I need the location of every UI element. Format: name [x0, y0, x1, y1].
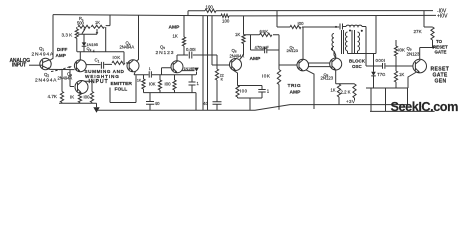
- svg-text:I0K: I0K: [149, 81, 156, 86]
- diode T7G: [371, 54, 376, 89]
- svg-text:Q1: Q1: [39, 46, 44, 52]
- resistor 100 with capacitor 1 (Q6 emitter network): [233, 70, 266, 111]
- resistor 10K (Q9 input, x=396): [394, 40, 397, 66]
- capacitor C1: [86, 62, 112, 69]
- wire Q6 base feed: [212, 64, 230, 66]
- wire dropper to 4.7K x=62: [61, 70, 63, 92]
- resistor 10K (Q7 base bias, x=279): [277, 65, 280, 110]
- wire riser to Q5 base: [162, 68, 172, 75]
- svg-text:+3V: +3V: [346, 99, 355, 104]
- svg-text:AMP: AMP: [290, 89, 302, 95]
- transistor Q5: [171, 61, 183, 73]
- transistor Q4: [127, 60, 139, 72]
- svg-text:1K: 1K: [235, 32, 240, 37]
- svg-text:FOLL: FOLL: [115, 86, 128, 92]
- svg-text:500: 500: [77, 21, 85, 26]
- capacitor (interstage, on y=74.7): [149, 71, 151, 77]
- svg-text:1: 1: [149, 67, 151, 71]
- wire -10V drop x=277 to oscillator feed: [276, 11, 278, 27]
- node dot (transformer primary): [331, 48, 333, 50]
- svg-text:4.7K: 4.7K: [48, 94, 58, 99]
- resistor 100 (emitter foll, x=174.5): [173, 75, 176, 93]
- svg-text:I00: I00: [298, 21, 305, 26]
- svg-text:AMP: AMP: [56, 53, 66, 58]
- wire pot right end down x=105.7: [106, 15, 110, 52]
- svg-text:C1: C1: [95, 58, 100, 64]
- wire ground rail main: [97, 105, 408, 111]
- wire Q7 emitter dropper: [306, 70, 314, 109]
- resistor 3.3K vertical x=76.8: [75, 27, 78, 52]
- wire emitter-foll box: [110, 75, 136, 102]
- transistor Q8: [330, 58, 342, 70]
- resistor 100 (Q3 collector, x=92): [90, 92, 93, 104]
- ground symbol: [93, 103, 99, 113]
- node dot on osc wire: [335, 26, 337, 28]
- wire Q3 collector to 100: [85, 81, 93, 91]
- wire corner down x=124 to 10K: [123, 52, 125, 63]
- core lines pair 2: [352, 30, 355, 54]
- svg-text:2N494A: 2N494A: [35, 77, 57, 83]
- resistor 1K (Q3 emitter, x=80): [78, 93, 81, 103]
- svg-text:68K: 68K: [260, 29, 269, 34]
- wire left supply drop x=53 to Q1 collector: [50, 15, 54, 61]
- winding bottoms wiring: [334, 51, 376, 58]
- svg-text:1K: 1K: [137, 79, 142, 83]
- svg-text:1: 1: [267, 89, 270, 94]
- wire dropper x=196 to ground rail: [195, 93, 197, 111]
- wire Q4 collector riser x=138.5: [136, 15, 139, 61]
- capacitor 1 (emitter foll, x=192): [189, 75, 196, 93]
- capacitor 0.001 (no.2): [383, 63, 385, 69]
- wire output node y=55: [177, 54, 217, 56]
- transistor Q2: [74, 60, 86, 72]
- wire node bus y=51.8: [77, 51, 124, 53]
- polarity dot top middle: [349, 29, 351, 31]
- svg-text:BLOCK: BLOCK: [349, 58, 366, 63]
- svg-text:100: 100: [206, 5, 214, 10]
- core lines pair 1: [342, 30, 344, 54]
- capacitor 40 (no.1, x=150): [146, 93, 154, 111]
- wiper arrow R1: [82, 29, 85, 34]
- wire 10K to Q4 base: [126, 62, 129, 64]
- svg-text:100: 100: [222, 19, 230, 24]
- resistor 1K (Q9 base, x=396): [394, 66, 397, 88]
- wire mid verticals x=203,207.5,212: [203, 16, 212, 111]
- resistor 1K (amp collector load, x=184): [182, 16, 185, 56]
- polarity dot top right: [361, 30, 363, 32]
- wire Q2 collector riser: [79, 52, 81, 60]
- wire pot wiper bus y=34.3: [78, 33, 97, 35]
- potentiometer R1 500 / 1K body: [78, 25, 104, 28]
- svg-text:OSC: OSC: [352, 64, 363, 69]
- resistor 4.7K (x=62): [60, 92, 63, 104]
- svg-text:0.00I: 0.00I: [186, 47, 196, 52]
- diode 1N198 (at Q5 emitter): [182, 68, 199, 75]
- svg-text:I00: I00: [165, 81, 172, 86]
- svg-text:AMP: AMP: [169, 24, 181, 30]
- winding 4 horizontal (top): [343, 25, 367, 66]
- svg-text:T7G: T7G: [377, 72, 385, 77]
- wire arrow to reset gate: [428, 47, 433, 49]
- svg-text:40: 40: [155, 101, 161, 106]
- wire dropper to Q3 base x=70: [70, 70, 74, 87]
- svg-text:3.3 K: 3.3 K: [62, 33, 74, 38]
- winding 3: [358, 32, 360, 51]
- wire dashed thermal-coupling arrow Q1 to Q2: [51, 67, 70, 72]
- resistor (osc feed, on y=27 wire): [277, 25, 339, 28]
- svg-text:I0K: I0K: [113, 55, 121, 60]
- svg-text:2N123: 2N123: [407, 51, 420, 56]
- svg-text:Q2: Q2: [44, 72, 49, 78]
- svg-text:1N19B: 1N19B: [184, 67, 196, 71]
- wire -10V rail (top rail): [188, 10, 433, 12]
- wire Q9 collector node: [420, 48, 433, 60]
- svg-text:IK: IK: [70, 95, 74, 100]
- svg-text:EMITTER: EMITTER: [111, 81, 133, 87]
- resistor 2.2K (to +3V, x=354.5): [353, 84, 356, 100]
- transistor Q1: [40, 58, 51, 69]
- resistor 27K: [424, 11, 434, 48]
- wire Q9 emitter dropper: [408, 72, 417, 88]
- svg-text:Q5: Q5: [160, 44, 165, 50]
- svg-text:GATE: GATE: [435, 50, 447, 55]
- transformer T1 blocking-osc: [332, 29, 376, 58]
- wire ground rail left segment: [59, 102, 97, 104]
- svg-text:DIFF: DIFF: [57, 47, 68, 52]
- svg-text:I00: I00: [240, 89, 248, 94]
- wire Q8 emitter and bias bus: [336, 70, 355, 84]
- winding 2: [345, 32, 347, 51]
- resistor 1K (Q6 collector, x=243.5): [240, 16, 245, 60]
- svg-text:2N494A: 2N494A: [120, 45, 135, 50]
- wire output bus y=66 to Q9 base: [366, 65, 413, 67]
- wire +10V drop x=376: [375, 16, 377, 54]
- svg-text:GEN: GEN: [435, 78, 447, 84]
- svg-text:I0K: I0K: [262, 74, 271, 79]
- svg-text:1K: 1K: [331, 87, 336, 92]
- wire Q1 emitter bus to Q2: [50, 68, 75, 70]
- resistor 68K (feedback): [244, 33, 280, 36]
- winding 1: [332, 34, 334, 51]
- wire analog input to Q1 base: [29, 64, 43, 66]
- resistor 1K (emitter foll, x=143.5): [142, 75, 145, 93]
- svg-text:1K: 1K: [95, 20, 100, 25]
- resistor 10K (emitter foll, x=160): [158, 75, 161, 93]
- wire Q7 base feed: [279, 64, 297, 66]
- svg-text:AMP: AMP: [250, 56, 262, 62]
- svg-text:SeekIC.com: SeekIC.com: [391, 100, 459, 114]
- svg-text:470μμF: 470μμF: [255, 45, 270, 50]
- transistor Q6: [230, 59, 242, 71]
- wire Q5 collector riser: [176, 55, 178, 61]
- svg-text:40: 40: [203, 101, 209, 106]
- svg-text:+I0V: +I0V: [437, 13, 448, 19]
- wire Q7 collector riser: [302, 27, 304, 59]
- wire right bottom drop to rail: [407, 88, 409, 105]
- resistor 100 (on +10V rail): [221, 14, 229, 17]
- wire Q7-Q8 coupling links: [309, 63, 331, 67]
- wiper arrow 1K: [96, 29, 98, 33]
- transistor Q7: [297, 59, 309, 71]
- svg-text:INPUT: INPUT: [12, 63, 26, 69]
- svg-text:1: 1: [197, 81, 200, 86]
- svg-text:TRIG: TRIG: [288, 83, 302, 89]
- wire corner joining rails at x=188: [187, 11, 189, 16]
- capacitor 0.001 (no.1): [189, 52, 192, 59]
- transistor Q3 (emitter follower): [75, 81, 88, 94]
- svg-text:2.2 K: 2.2 K: [341, 89, 351, 94]
- wire Q4 emitter to bus y=74.7: [134, 71, 196, 75]
- svg-text:I0K: I0K: [398, 48, 405, 53]
- resistor 1K (Q8 emitter, x=339): [337, 84, 340, 105]
- svg-text:000I: 000I: [376, 58, 386, 63]
- svg-text:1K: 1K: [173, 33, 178, 38]
- svg-text:1N195: 1N195: [87, 42, 98, 47]
- svg-text:27K: 27K: [414, 29, 423, 34]
- transistor Q9: [413, 59, 427, 73]
- wire Q8 collector to transformer: [334, 51, 336, 58]
- svg-text:1K: 1K: [399, 72, 404, 77]
- wire bottom bus y=88: [366, 87, 408, 89]
- capacitor 470uuF (feedback): [251, 35, 280, 65]
- svg-text:2N123: 2N123: [287, 48, 298, 53]
- resistor 22K chain with capacitor 40 (no.2) x=217: [213, 55, 222, 110]
- diode 1N195: [82, 34, 87, 52]
- svg-text:K: K: [221, 78, 224, 82]
- svg-text:2N123: 2N123: [321, 76, 334, 81]
- wire resistor bottom bus y=92.6: [144, 92, 197, 94]
- resistor 10K (summing input): [112, 61, 125, 64]
- svg-text:2N494A: 2N494A: [32, 52, 54, 58]
- wire bottom frame lines under watermark: [370, 88, 435, 111]
- wire +10V rail (second rail): [53, 15, 436, 16]
- svg-text:I00: I00: [84, 95, 91, 100]
- svg-text:2N494A: 2N494A: [58, 76, 73, 81]
- resistor 100 (on -10V rail): [205, 9, 216, 12]
- capacitor (osc top, x~341): [340, 24, 343, 30]
- svg-text:2N123: 2N123: [156, 50, 175, 56]
